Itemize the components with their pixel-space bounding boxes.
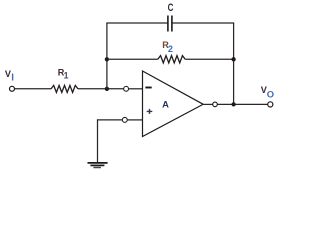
node Vi input terminal bbox=[10, 86, 15, 91]
op-amp plus marker bbox=[147, 109, 153, 114]
wire from R1 to inverting node bbox=[78, 88, 124, 90]
svg-text:V: V bbox=[5, 69, 11, 79]
wire output to Vo terminal bbox=[217, 103, 267, 105]
ground bbox=[88, 163, 108, 168]
wire right vertical from capacitor line down to output node bbox=[233, 23, 235, 104]
capacitor C plates bbox=[167, 16, 169, 32]
wire input segment from Vi terminal to R1 bbox=[15, 88, 51, 90]
wire R2 line right part bbox=[185, 58, 233, 60]
wire plus input horizontal bbox=[98, 119, 123, 121]
open circle at op-amp output bbox=[213, 102, 218, 107]
svg-text:2: 2 bbox=[168, 44, 173, 54]
wire vertical down to ground bbox=[97, 119, 99, 163]
node Vo output terminal bbox=[268, 102, 273, 107]
op-amp minus marker bbox=[145, 87, 151, 89]
svg-text:1: 1 bbox=[64, 70, 69, 80]
svg-text:O: O bbox=[267, 88, 274, 99]
wire top capacitor line right part bbox=[172, 22, 234, 24]
svg-text:C: C bbox=[168, 2, 174, 15]
junction dot at R2 left tee bbox=[105, 57, 109, 61]
wire top capacitor line left part bbox=[106, 22, 168, 24]
junction dot at R2 right tee bbox=[231, 57, 235, 61]
svg-text:I: I bbox=[11, 73, 14, 84]
junction dot output node bbox=[231, 102, 235, 106]
junction dot inverting node bbox=[105, 87, 109, 91]
resistor R2 bbox=[158, 56, 185, 63]
open circle at non-inverting input bbox=[122, 117, 127, 122]
op-amp U1 triangle bbox=[143, 71, 204, 137]
wire left vertical riser from inverting node up to capacitor line bbox=[106, 23, 108, 89]
wire open circle to op-amp plus input bbox=[127, 119, 142, 121]
wire op-amp output to open circle bbox=[203, 103, 212, 105]
resistor R1 bbox=[51, 85, 78, 92]
open circle at inverting input bbox=[124, 86, 129, 91]
wire open circle to op-amp minus input bbox=[129, 88, 143, 90]
svg-text:A: A bbox=[162, 99, 169, 110]
wire R2 line left part bbox=[107, 58, 158, 60]
